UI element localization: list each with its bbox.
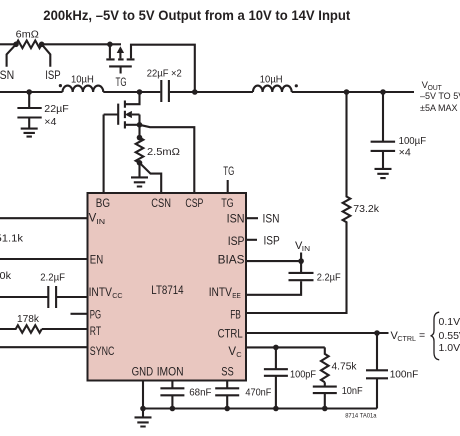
svg-text:×4: ×4 (44, 116, 56, 128)
wire PG stub (71, 313, 87, 315)
svg-text:TG: TG (223, 166, 234, 178)
wire CSP (140, 125, 195, 193)
svg-text:ISN: ISN (0, 70, 14, 82)
wire INTVEE (247, 281, 301, 295)
svg-text:SYNC: SYNC (90, 346, 115, 358)
junction CTRL / C9 / VCTRL (374, 330, 380, 336)
svg-text:INTV: INTV (89, 287, 113, 299)
wire TG pin stub (227, 180, 229, 192)
junction Q2 source / CSP (137, 122, 143, 128)
junction C5 / bottom rail (273, 406, 279, 412)
svg-text:0.55V: 0.55V (439, 330, 460, 342)
svg-text:10nF: 10nF (342, 385, 363, 397)
svg-text:200kHz, –5V to 5V Output from: 200kHz, –5V to 5V Output from a 10V to 1… (43, 8, 350, 23)
capacitor C3 100uF x4 (371, 92, 396, 169)
ground under R2 (131, 163, 148, 187)
junction R2 top (137, 135, 143, 141)
svg-text:10µH: 10µH (260, 74, 283, 86)
wire CSN (140, 163, 162, 193)
svg-text:V: V (228, 346, 236, 358)
svg-text:470nF: 470nF (245, 387, 271, 399)
svg-text:=: = (419, 330, 425, 342)
junction VOUT rail / C3 (380, 89, 386, 95)
svg-text:–5V TO 5V: –5V TO 5V (420, 91, 460, 101)
svg-text:1.0V: 1.0V (439, 342, 460, 354)
diode arrow Q1 (117, 46, 124, 53)
svg-text:BIAS: BIAS (218, 254, 245, 266)
wire ISP stub (247, 239, 257, 241)
junction IMON cap / bottom rail (170, 406, 176, 412)
phasing dot L1 (59, 84, 62, 87)
svg-text:22µF ×2: 22µF ×2 (147, 67, 182, 79)
svg-text:TG: TG (116, 77, 127, 89)
svg-text:ISN: ISN (227, 214, 245, 226)
capacitor C10 10nF (313, 382, 337, 408)
capacitor C7 68nF IMON (160, 381, 184, 409)
resistor R 6mOhm (16, 41, 42, 49)
svg-text:73.2k: 73.2k (353, 203, 379, 215)
phasing dot L2 (295, 84, 298, 87)
wire GND pin (142, 381, 144, 409)
svg-text:CTRL: CTRL (397, 334, 416, 343)
wire INTVCC with C4 2.2uF (0, 286, 87, 308)
svg-text:FB: FB (230, 309, 241, 321)
svg-text:4.75k: 4.75k (332, 361, 358, 373)
wire rail L1 to C2 (103, 91, 160, 93)
svg-text:68nF: 68nF (189, 387, 211, 399)
wire 6mOhm to Q1 source (42, 43, 121, 45)
junction C10 / bottom rail (322, 406, 328, 412)
svg-text:C: C (236, 350, 242, 359)
ground C3 (375, 169, 392, 178)
wire rail L2 to VOUT (292, 91, 414, 93)
svg-text:6mΩ: 6mΩ (16, 29, 39, 41)
transistor Q2 NMOS lower (104, 92, 140, 192)
resistor R2 2.5mOhm (136, 138, 144, 163)
wire bottom rail (143, 407, 377, 409)
wire VIN pin (0, 217, 87, 219)
wire VC (247, 346, 325, 348)
wire ISN stub (247, 217, 258, 219)
svg-text:CSP: CSP (185, 198, 203, 210)
svg-text:100pF: 100pF (290, 369, 316, 381)
svg-text:2.5mΩ: 2.5mΩ (147, 146, 180, 158)
svg-text:100µF: 100µF (399, 135, 427, 147)
svg-text:22µF: 22µF (44, 103, 68, 115)
svg-text:CSN: CSN (151, 198, 171, 210)
junction R2 bottom / CSN / ground (137, 160, 143, 166)
ground GND pin (135, 409, 152, 427)
svg-text:±5A MAX: ±5A MAX (420, 103, 457, 113)
svg-text:CC: CC (112, 291, 123, 300)
capacitor C9 100nF (366, 333, 388, 409)
junction 6mOhm right / ISP tap (39, 42, 45, 48)
wire RT with R5 178k (0, 325, 87, 333)
svg-text:TG: TG (221, 198, 234, 210)
svg-text:10µH: 10µH (71, 74, 94, 86)
svg-text:ISP: ISP (45, 70, 61, 82)
capacitor C2 22uF x2 plates (161, 80, 169, 102)
junction Q1 source on top rail (107, 42, 113, 48)
brace VCTRL values (431, 312, 440, 360)
junction SS cap / bottom rail (224, 406, 230, 412)
svg-text:ISN: ISN (263, 214, 280, 226)
capacitor C8 470nF SS (215, 381, 239, 409)
svg-text:IMON: IMON (157, 366, 184, 378)
capacitor C5 100pF (264, 347, 288, 408)
wire SYNC pin (0, 346, 87, 348)
junction rail / Q1 drain / C2 (192, 89, 198, 95)
svg-text:GND: GND (132, 366, 154, 378)
wire CTRL (247, 332, 389, 334)
svg-text:EE: EE (232, 291, 241, 300)
junction BIAS / VIN / C6 (298, 258, 304, 264)
inductor L1 10uH (63, 86, 104, 92)
node ISN sense tap (7, 44, 16, 67)
svg-text:IN: IN (302, 244, 310, 253)
svg-text:2.2µF: 2.2µF (317, 272, 341, 284)
svg-text:RT: RT (90, 326, 101, 338)
IC U1 LT8714 body (88, 193, 247, 381)
junction input rail / C1 (26, 89, 32, 95)
junction VOUT rail / 73.2k (344, 89, 350, 95)
resistor R3 73.2k with wires (247, 92, 350, 313)
junction VC / C5 (273, 345, 279, 351)
inductor L2 10uH (253, 86, 292, 92)
svg-text:8714 TA01a: 8714 TA01a (345, 413, 377, 420)
svg-text:100nF: 100nF (390, 369, 419, 381)
wire input rail lower (0, 91, 63, 93)
wire BIAS to VIN node (247, 253, 301, 262)
svg-text:PG: PG (90, 309, 101, 321)
junction 6mOhm left / ISN tap (13, 42, 19, 48)
wire EN pin (0, 258, 87, 260)
transistor Q1 TG NMOS (106, 44, 195, 91)
svg-text:178k: 178k (17, 313, 40, 325)
svg-text:ISP: ISP (264, 236, 281, 248)
junction GND / bottom rail (140, 406, 146, 412)
svg-text:ISP: ISP (228, 236, 245, 248)
svg-text:51.1k: 51.1k (0, 233, 24, 245)
resistor R4 4.75k (321, 347, 329, 382)
svg-text:CTRL: CTRL (218, 329, 244, 341)
svg-text:IN: IN (96, 217, 105, 226)
ground C1 (21, 129, 38, 137)
junction rail / Q2 drain (137, 89, 143, 95)
svg-text:EN: EN (90, 254, 103, 266)
svg-text:SS: SS (221, 366, 234, 378)
wire top input rail (0, 43, 16, 45)
svg-text:0.1V: 0.1V (439, 316, 460, 328)
svg-text:INTV: INTV (209, 287, 233, 299)
svg-text:×4: ×4 (399, 146, 411, 158)
wire rail C2 to L2 (170, 91, 253, 93)
svg-text:2.2µF: 2.2µF (40, 272, 65, 284)
node ISP sense tap (42, 44, 51, 67)
svg-text:LT8714: LT8714 (151, 285, 184, 297)
svg-text:BG: BG (96, 198, 110, 210)
capacitor C1 22uF x4 (17, 92, 41, 128)
diode arrow Q2 (125, 111, 132, 118)
capacitor C6 2.2uF BIAS (289, 261, 314, 280)
svg-text:100k: 100k (0, 270, 12, 282)
